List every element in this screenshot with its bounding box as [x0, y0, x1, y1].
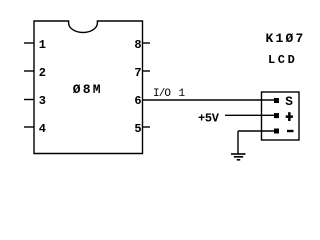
svg-text:1: 1: [39, 38, 46, 52]
svg-text:7: 7: [134, 66, 141, 80]
svg-text:3: 3: [39, 94, 46, 108]
svg-text:1: 1: [179, 88, 186, 100]
svg-text:5: 5: [134, 122, 141, 136]
svg-text:8: 8: [134, 38, 141, 52]
svg-text:6: 6: [134, 94, 141, 108]
svg-text:Ø8M: Ø8M: [73, 82, 103, 97]
svg-text:4: 4: [39, 122, 46, 136]
svg-text:LCD: LCD: [268, 53, 297, 67]
svg-text:S: S: [285, 94, 293, 109]
svg-text:+5V: +5V: [198, 111, 220, 125]
svg-text:I/O: I/O: [153, 88, 171, 100]
svg-text:K1Ø7: K1Ø7: [266, 31, 306, 46]
svg-text:2: 2: [39, 66, 46, 80]
